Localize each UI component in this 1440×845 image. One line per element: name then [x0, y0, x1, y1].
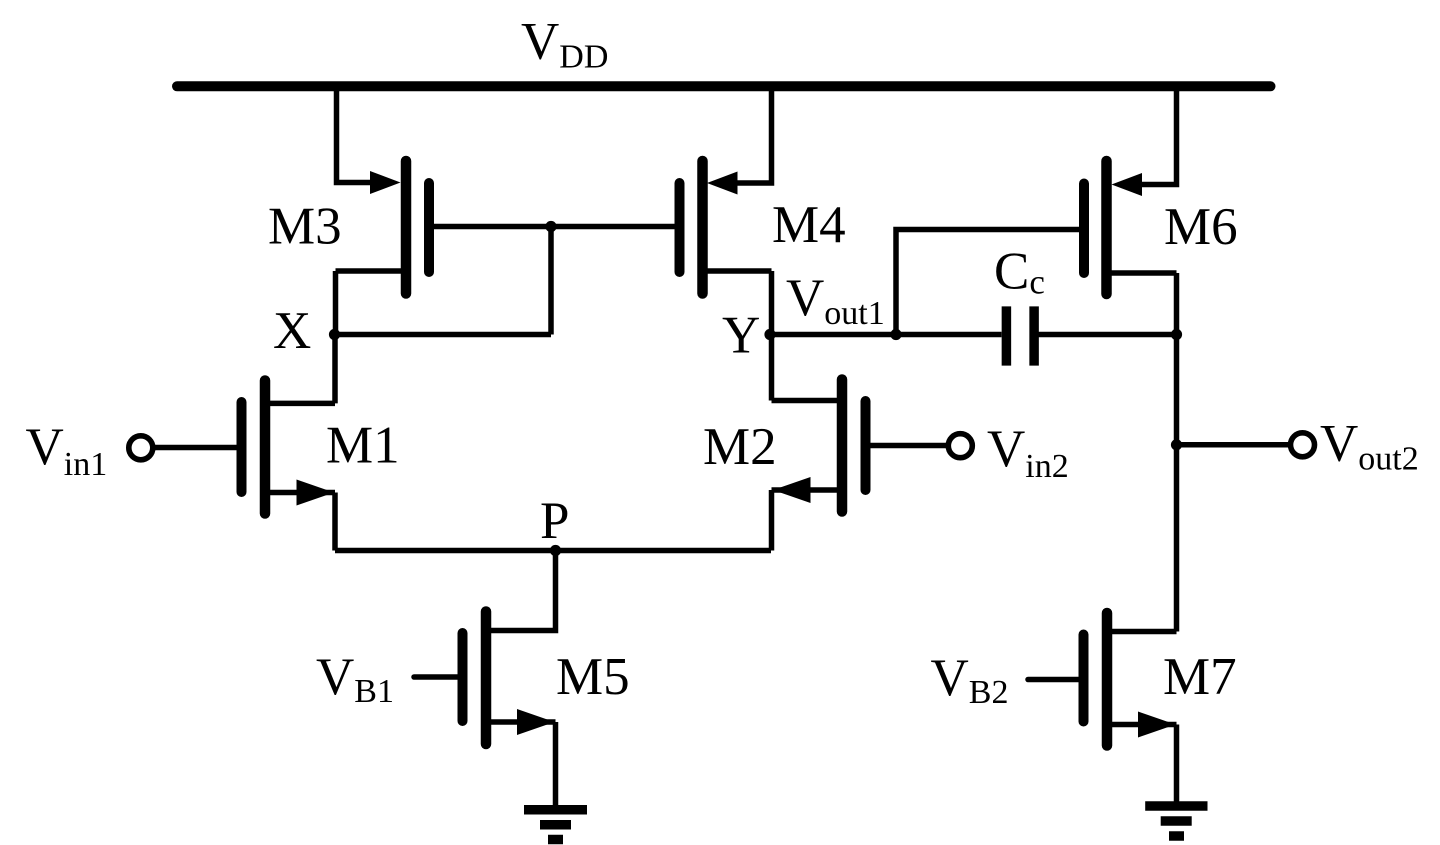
junction Cc wire / M6 drain [1171, 329, 1182, 340]
M2 source stub [772, 487, 843, 493]
M6 channel bar [1101, 161, 1112, 294]
M2 channel bar [837, 380, 848, 512]
wire M2 drain up to node Y [769, 335, 775, 401]
M7 gate wire from VB2 [1028, 677, 1084, 683]
M7 channel bar [1102, 613, 1113, 746]
svg-text:VB2: VB2 [931, 649, 1009, 711]
wire node P down to M5 drain [486, 551, 556, 631]
wire M4 drain down to node Y [769, 271, 775, 335]
M5 gate bar [458, 633, 468, 721]
wire M3 drain down to node X [333, 271, 339, 335]
wire M5 source down to ground [553, 722, 559, 806]
wire M1 drain up to node X [332, 335, 338, 404]
ground symbol below M5 [524, 810, 587, 840]
M2 gate bar [861, 401, 871, 490]
M3 channel bar [401, 161, 412, 294]
svg-text:Vin2: Vin2 [987, 420, 1069, 485]
wire M7 source down to ground [1174, 725, 1180, 803]
node X [329, 329, 340, 340]
M3 gate bar [424, 183, 434, 272]
M1 drain stub [265, 401, 335, 407]
svg-text:M7: M7 [1163, 648, 1237, 706]
junction node Vout2 [1171, 439, 1182, 450]
svg-text:M6: M6 [1164, 198, 1238, 256]
svg-text:P: P [540, 492, 569, 550]
M4 channel bar [697, 161, 708, 294]
svg-text:M2: M2 [703, 418, 777, 476]
VDD rail [177, 81, 1271, 91]
M4 source arrow [707, 172, 738, 195]
wire VDD to M6 source [1141, 86, 1177, 184]
wire Vout1 up and right to M6 gate [896, 230, 1084, 335]
M6 drain stub [1107, 270, 1177, 276]
wire gate junction down to node X [548, 227, 554, 335]
M1 source stub [265, 490, 335, 496]
svg-text:Cc: Cc [994, 243, 1045, 302]
M5 channel bar [481, 612, 492, 745]
M2 source arrow [773, 477, 811, 503]
svg-text:X: X [273, 302, 311, 360]
M5 source arrow [517, 709, 555, 735]
svg-text:Vout1: Vout1 [786, 269, 885, 332]
terminal Vout2 [1291, 433, 1315, 457]
terminal Vin1 [129, 436, 153, 460]
Cc left plate [1002, 306, 1012, 365]
transistor M1 (NMOS) [153, 335, 335, 551]
svg-text:M5: M5 [556, 648, 630, 706]
node Y [764, 329, 775, 340]
wire gate bus M3-M4 [429, 224, 680, 230]
wire node X horizontal [335, 332, 552, 338]
terminal Vin2 [948, 434, 972, 458]
M2 drain stub [772, 398, 843, 404]
M2 gate wire to Vin2 [866, 443, 948, 449]
M6 source arrow [1112, 173, 1143, 196]
svg-text:Vin1: Vin1 [26, 418, 108, 483]
svg-text:M4: M4 [772, 196, 846, 254]
junction node Vout1 [890, 329, 901, 340]
wire M1 source down to node P [332, 493, 338, 551]
Cc right plate [1029, 306, 1039, 365]
wire M2 source down to node P [769, 490, 775, 551]
M1 gate wire from Vin1 [153, 445, 242, 451]
transistor M7 (NMOS) [1028, 613, 1177, 802]
M1 source arrow [297, 480, 335, 506]
transistor M4 (PMOS) [680, 161, 772, 335]
svg-text:VB1: VB1 [316, 648, 394, 710]
wire VDD to M3 source [337, 86, 373, 182]
M7 source arrow [1138, 712, 1176, 738]
M5 source stub [486, 719, 556, 725]
M1 channel bar [260, 381, 271, 514]
junction on gate bus [545, 221, 556, 232]
capacitor Cc [1006, 306, 1034, 365]
transistor M6 (PMOS) [1084, 161, 1177, 294]
wire node Y to Cc left plate [770, 332, 1002, 338]
M3 source arrow [370, 171, 401, 194]
transistor M5 (NMOS) [414, 612, 556, 807]
ground symbol below M7 [1145, 806, 1207, 836]
M7 drain stub [1107, 629, 1177, 635]
svg-text:M3: M3 [268, 198, 342, 256]
transistor M3 (PMOS) [336, 161, 430, 335]
svg-text:VDD: VDD [521, 13, 608, 76]
M3 drain stub [336, 268, 407, 274]
M6 gate bar [1079, 184, 1089, 274]
M4 gate bar [675, 183, 685, 272]
M5 gate wire from VB1 [414, 674, 463, 680]
wire Cc right plate to M6 drain [1039, 332, 1177, 338]
node P [550, 545, 561, 556]
M1 gate bar [237, 402, 247, 492]
M4 drain stub [703, 268, 772, 274]
svg-text:Vout2: Vout2 [1320, 415, 1419, 478]
wire node P rail [335, 548, 771, 554]
wire VDD to M4 source [736, 86, 772, 183]
wire to Vout2 terminal [1177, 442, 1289, 448]
transistor M2 (NMOS) [772, 335, 949, 551]
svg-text:M1: M1 [326, 417, 400, 475]
wire M6 drain down to M7 drain [1174, 273, 1180, 632]
svg-text:Y: Y [722, 307, 760, 365]
M7 gate bar [1079, 635, 1089, 722]
M7 source stub [1107, 722, 1177, 728]
